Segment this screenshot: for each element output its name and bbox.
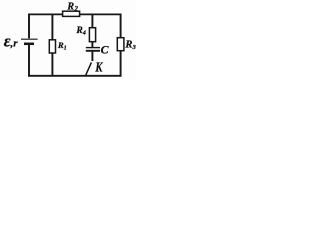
battery long plate (positive): [21, 38, 38, 40]
wire branch R1 upper segment: [51, 14, 53, 40]
wire between capacitor and switch contact: [91, 52, 93, 61]
battery short plate (negative): [24, 43, 34, 46]
wire branch R1 lower segment: [51, 53, 53, 76]
svg-text:ε,r: ε,r: [4, 31, 19, 50]
wire right border lower segment: [120, 51, 122, 77]
wire left border lower segment: [28, 45, 30, 77]
svg-text:R2: R2: [66, 2, 78, 14]
svg-text:R3: R3: [124, 39, 136, 51]
wire bottom border: [28, 75, 121, 77]
resistor R1 box: [49, 40, 55, 53]
wire top border left segment: [28, 13, 63, 15]
resistor R4 box: [89, 28, 95, 42]
wire between R4 and capacitor C: [91, 42, 93, 47]
svg-text:R4: R4: [75, 25, 86, 37]
resistor R3 box on right border: [117, 38, 124, 51]
svg-text:C: C: [101, 43, 109, 57]
wire top border right segment: [79, 13, 121, 15]
capacitor C top plate: [86, 47, 100, 49]
resistor R2 box on top border: [63, 11, 80, 16]
switch K blade (open): [86, 62, 92, 75]
wire middle branch upper segment: [91, 14, 93, 28]
wire right border upper segment: [120, 14, 122, 39]
capacitor C bottom plate: [86, 50, 100, 52]
svg-text:R1: R1: [57, 40, 67, 52]
svg-text:K: K: [95, 59, 104, 75]
wire left border upper segment: [28, 14, 30, 39]
